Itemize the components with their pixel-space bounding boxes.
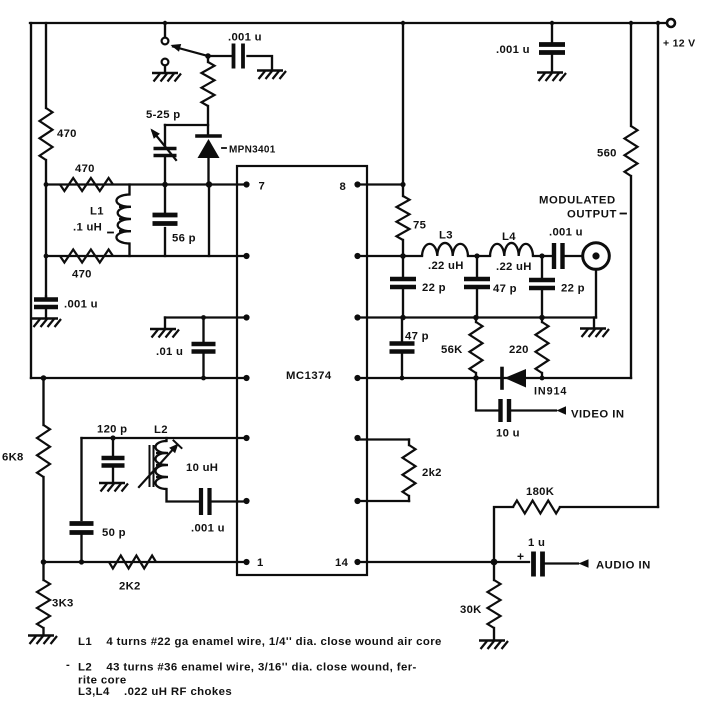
svg-text:.1 uH: .1 uH [73,222,102,234]
svg-text:22 p: 22 p [422,282,446,294]
ground (switch cap) [257,71,286,80]
svg-text:IN914: IN914 [534,386,567,398]
svg-text:560: 560 [597,148,617,160]
svg-text:47 p: 47 p [405,331,429,343]
wire: right edge vertical (audio feed) [657,23,659,507]
capacitor 10 u (video in) [476,378,498,411]
svg-text:L1 4 turns #22 ga enamel wi: L1 4 turns #22 ga enamel wire, 1/4ʹʹ dia… [78,636,442,648]
ground (Vcc bypass) [537,73,566,82]
diode IN914 [500,369,504,389]
arrow AUDIO IN [579,559,589,568]
svg-text:47 p: 47 p [493,283,517,295]
svg-text:1: 1 [257,557,264,569]
wire: pin 8 row [358,183,404,185]
wire: L3-L4 link [468,255,490,257]
wire: pin 6 row (left) [46,255,244,257]
capacitor 22 p (output side) [541,256,543,277]
svg-text:2k2: 2k2 [422,467,442,479]
inductor L1 .1 uH [128,185,130,257]
svg-text:22 p: 22 p [561,283,585,295]
svg-text:180K: 180K [526,486,555,498]
svg-text:.001 u: .001 u [228,32,262,44]
wire: pin 5 row (left) [82,437,245,439]
terminal +12 V [667,19,675,27]
wire: pin 3 (right) ground rail [358,316,597,318]
svg-text:OUTPUT: OUTPUT [567,209,617,221]
node: switch pole junction [205,53,211,59]
trimmer capacitor 5-25 p [164,125,166,146]
ground (pin 3) [150,329,179,338]
svg-text:MODULATED: MODULATED [539,195,616,207]
svg-text:L3,L4 .022 uH RF chokes: L3,L4 .022 uH RF chokes [78,686,232,698]
svg-text:30K: 30K [460,604,482,616]
svg-text:MPN3401: MPN3401 [229,145,276,156]
ground (30K) [479,641,508,650]
capacitor 47 p (mid) [476,256,478,276]
wire: pin 2 row (RF out) with L3/L4 ladder [358,255,423,257]
wire: pin 14 audio row [358,561,530,563]
ground (switch) [164,66,166,73]
ground (output rail) [593,318,595,329]
svg-text:.22 uH: .22 uH [496,261,532,273]
svg-text:56K: 56K [441,344,463,356]
svg-text:6K8: 6K8 [2,452,24,464]
wire: varactor top bracket [165,124,208,126]
capacitor .01 u [202,318,204,342]
wire: varactor anode to pin 6 row [208,185,210,257]
ground (left bias) [32,319,61,328]
switch throw terminal (to +12V) [164,23,166,38]
wire: pin 7 row (left) [46,183,244,185]
svg-text:MC1374: MC1374 [286,370,332,382]
inductor L2 10 uH (variable, ferrite core) [167,438,199,502]
resistor 3K3 [42,562,44,635]
resistor 470 (horizontal, to pin 7) [60,178,113,191]
node: audio summing [491,559,498,566]
connector MODULATED OUTPUT [583,243,610,270]
resistor 560 [630,23,632,126]
svg-text:.001 u: .001 u [191,523,225,535]
svg-text:AUDIO IN: AUDIO IN [596,560,651,572]
wire: pin 4 row (video, right) [358,377,632,379]
svg-text:L1: L1 [90,206,104,218]
svg-text:8: 8 [340,181,347,193]
node: pin7 row junctions [162,182,168,188]
resistor (switch to varactor bias) [207,56,209,135]
wire: left vertical bus to pin 4 row [30,23,32,378]
wire: pin 3 (left) ground row [165,316,244,318]
svg-text:-: - [66,659,70,671]
svg-text:470: 470 [57,128,77,140]
resistor 470 (vertical, top left) [40,108,53,160]
switch arm (pole) [173,47,208,57]
switch throw terminal (to ground) [162,59,169,66]
svg-text:L3: L3 [439,230,453,242]
wire: pin 1 row [44,561,245,563]
capacitor 47 p (video) [401,318,403,341]
capacitor 56 p [164,185,166,257]
capacitor .001 u (output) [554,243,563,269]
resistor 6K8 [42,378,44,562]
ground (3K3) [28,636,57,645]
capacitor .001 u (left bias bypass) [45,295,47,298]
svg-text:75: 75 [413,220,426,232]
node: 6K8 tap [41,375,47,381]
svg-text:50 p: 50 p [102,527,126,539]
inductor L3 .22 uH [422,243,468,256]
inductor L4 .22 uH [490,243,533,256]
svg-text:L2 43 turns #36 enamel wire: L2 43 turns #36 enamel wire, 3/16ʹʹ dia.… [78,662,417,674]
svg-text:.001 u: .001 u [64,299,98,311]
wire: second vertical (470 bias string) [45,23,47,297]
svg-text:1 u: 1 u [528,537,545,549]
svg-text:.001 u: .001 u [549,227,583,239]
resistor 75 [397,196,410,240]
svg-text:14: 14 [335,557,349,569]
svg-text:+: + [517,550,524,564]
svg-text:VIDEO IN: VIDEO IN [571,409,625,421]
capacitor 22 p (first) [402,256,404,276]
pin dots left [243,181,249,187]
svg-text:.01 u: .01 u [156,346,183,358]
wire: pin 4 row (left) [31,377,244,379]
ground (120p) [99,483,128,492]
capacitor .001 u (L2 tap) [201,488,210,515]
arrow VIDEO IN [557,406,567,415]
resistor 30K [493,562,495,580]
svg-text:2K2: 2K2 [119,581,141,593]
svg-text:L2: L2 [154,424,168,436]
resistor 470 (horizontal, to pin 6) [60,250,113,263]
svg-text:470: 470 [75,163,95,175]
wire: pin 6 row right [358,500,410,502]
svg-text:56 p: 56 p [172,233,196,245]
resistor 180K [560,506,658,508]
node: rail junctions [163,21,167,25]
pin dots right [354,181,360,187]
wire: L4 to output cap [533,255,552,257]
IC MC1374 [237,166,367,575]
svg-text:.001 u: .001 u [496,44,530,56]
wire: pin 8 Vcc feed vertical [402,23,404,196]
resistor 56K [475,318,477,323]
svg-text:+ 12 V: + 12 V [663,38,695,50]
resistor 2K2 (horizontal) [109,556,156,569]
wire: connector to ground rail [595,269,597,317]
svg-text:rite core: rite core [78,675,127,687]
capacitor 50 p [80,438,82,520]
svg-text:5-25 p: 5-25 p [146,109,180,121]
capacitor .001 u (Vcc bypass) [551,23,553,42]
svg-text:220: 220 [509,344,529,356]
wire: pin 5 (2k2) row right [358,438,410,440]
svg-text:L4: L4 [502,231,516,243]
svg-text:10 u: 10 u [496,428,520,440]
svg-text:.22 uH: .22 uH [428,260,464,272]
wire: +12V top rail [30,22,666,24]
svg-text:10 uH: 10 uH [186,462,218,474]
resistor 2k2 [408,440,410,446]
svg-text:120 p: 120 p [97,424,127,436]
resistor 220 [541,318,543,323]
capacitor .001 u (switch decoupling) [208,55,231,57]
svg-text:470: 470 [72,269,92,281]
svg-text:7: 7 [259,181,266,193]
varactor diode MPN3401 [197,134,220,138]
capacitor 120 p [112,438,114,455]
svg-text:3K3: 3K3 [52,598,74,610]
